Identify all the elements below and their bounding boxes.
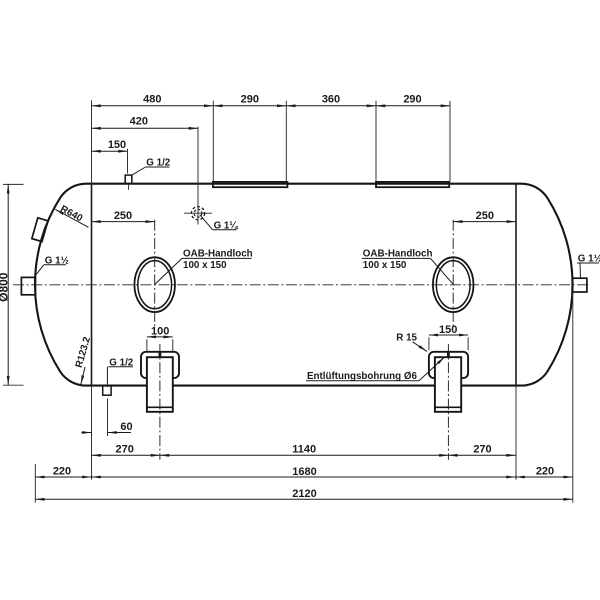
svg-text:250: 250 bbox=[476, 210, 494, 222]
svg-text:G 1¼: G 1¼ bbox=[214, 220, 239, 231]
svg-text:G 1½: G 1½ bbox=[45, 255, 69, 266]
svg-text:Ø800: Ø800 bbox=[0, 272, 11, 302]
svg-text:150: 150 bbox=[439, 324, 457, 336]
svg-text:360: 360 bbox=[322, 94, 340, 106]
svg-text:1680: 1680 bbox=[292, 466, 316, 478]
svg-text:290: 290 bbox=[403, 94, 421, 106]
svg-text:OAB-Handloch: OAB-Handloch bbox=[363, 249, 433, 260]
svg-text:220: 220 bbox=[536, 465, 554, 477]
svg-text:100: 100 bbox=[151, 325, 169, 337]
svg-text:OAB-Handloch: OAB-Handloch bbox=[183, 249, 253, 260]
svg-text:2120: 2120 bbox=[292, 488, 316, 500]
svg-text:480: 480 bbox=[143, 94, 161, 106]
svg-text:150: 150 bbox=[108, 139, 126, 151]
svg-text:270: 270 bbox=[473, 443, 491, 455]
svg-text:100 x 150: 100 x 150 bbox=[183, 260, 227, 271]
svg-text:250: 250 bbox=[114, 210, 132, 222]
svg-text:G 1/2: G 1/2 bbox=[146, 157, 171, 168]
svg-text:220: 220 bbox=[53, 465, 71, 477]
svg-text:100 x 150: 100 x 150 bbox=[363, 260, 407, 271]
svg-text:R 15: R 15 bbox=[396, 332, 417, 343]
svg-text:60: 60 bbox=[120, 421, 132, 433]
svg-text:270: 270 bbox=[116, 443, 134, 455]
svg-text:Entlüftungsbohrung Ø6: Entlüftungsbohrung Ø6 bbox=[307, 371, 417, 382]
svg-text:1140: 1140 bbox=[292, 443, 316, 455]
svg-text:420: 420 bbox=[130, 116, 148, 128]
svg-text:G 1/2: G 1/2 bbox=[109, 357, 134, 368]
svg-text:G 1½: G 1½ bbox=[578, 254, 600, 265]
svg-text:290: 290 bbox=[241, 94, 259, 106]
